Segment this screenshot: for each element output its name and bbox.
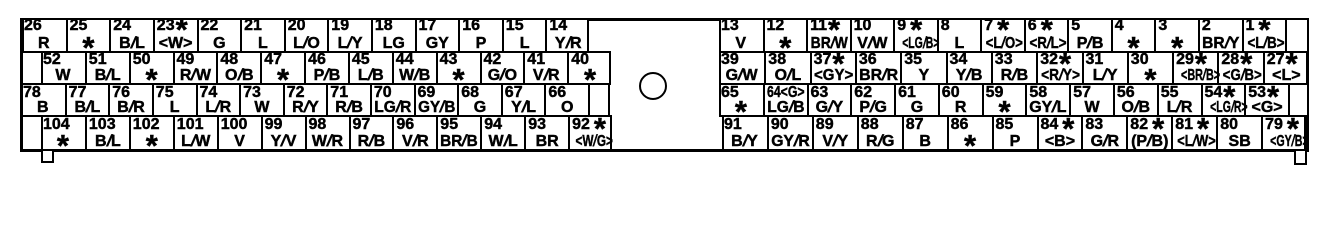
left bottom tab — [41, 149, 54, 163]
pin 98 (W/R) — [305, 116, 349, 150]
pin 71 (R/B) — [326, 84, 370, 116]
pin 79 (<GY/B>) — [1261, 116, 1306, 150]
pin 33 (R/B) — [991, 52, 1036, 84]
pin 60 (R) — [938, 84, 982, 116]
pin 4 (*) — [1111, 19, 1155, 52]
pin 29 (<BR/B>) — [1172, 52, 1217, 84]
pin 61 (G) — [894, 84, 938, 116]
pin 47 (*) — [260, 52, 304, 84]
pin 104 (*) — [41, 116, 85, 150]
pin 62 (P/G) — [850, 84, 894, 116]
pin 20 (L/O) — [284, 19, 328, 52]
pin 93 (BR) — [524, 116, 568, 150]
empty stub cell — [1288, 84, 1309, 116]
empty stub cell — [1285, 19, 1309, 52]
pin 59 (*) — [982, 84, 1026, 116]
pin 73 (W) — [239, 84, 283, 116]
pin 65 (*) — [719, 84, 763, 116]
pin 23 (<W>) — [153, 19, 197, 52]
pin row 26-14 group box — [22, 18, 589, 53]
pin 67 (Y/L) — [501, 84, 545, 116]
pin 53 (<G>) — [1244, 84, 1288, 116]
pin 72 (R/Y) — [283, 84, 327, 116]
pin 103 (B/L) — [85, 116, 129, 150]
pin 70 (LG/R) — [370, 84, 414, 116]
pin 34 (Y/B) — [946, 52, 991, 84]
pin 101 (L/W) — [173, 116, 217, 150]
pin 91 (B/Y) — [722, 116, 767, 150]
pin 68 (G) — [457, 84, 501, 116]
pin 54 (<LG/R>) — [1201, 84, 1245, 116]
pin 39 (G/W) — [719, 52, 764, 84]
pin row 52-40 group box — [41, 51, 611, 85]
right bottom tab — [1294, 149, 1307, 165]
pin 83 (G/R) — [1081, 116, 1126, 150]
pin 86 (*) — [947, 116, 992, 150]
pin 5 (P/B) — [1067, 19, 1111, 52]
pin 15 (L) — [502, 19, 546, 52]
pin 95 (BR/B) — [436, 116, 480, 150]
pin 81 (<L/W>) — [1171, 116, 1216, 150]
pin 82 ((P/B)) — [1126, 116, 1171, 150]
pin row 39-27* group box — [719, 51, 1308, 85]
pin 30 (*) — [1127, 52, 1172, 84]
pin 9 (<LG/B>) — [893, 19, 937, 52]
pin 66 (O) — [544, 84, 588, 116]
pin 13 (V) — [719, 19, 763, 52]
pin 40 (*) — [567, 52, 611, 84]
pin 92 (<W/G>) — [568, 116, 612, 150]
pin 69 (GY/B) — [414, 84, 458, 116]
pin 77 (B/L) — [65, 84, 109, 116]
pin 32 (<R/Y>) — [1036, 52, 1081, 84]
pin 48 (O/B) — [216, 52, 260, 84]
pin 55 (L/R) — [1157, 84, 1201, 116]
pin 99 (Y/V) — [261, 116, 305, 150]
connector outer outline — [20, 18, 1309, 152]
pin 19 (L/Y) — [327, 19, 371, 52]
pin 38 (O/L) — [764, 52, 809, 84]
pin 18 (LG) — [371, 19, 415, 52]
pin 64 (LG/B) — [763, 84, 807, 116]
pin 100 (V) — [217, 116, 261, 150]
pin row 78-66 group box — [21, 83, 610, 117]
pin 96 (V/R) — [392, 116, 436, 150]
center mounting hole — [639, 72, 667, 100]
pin 50 (*) — [129, 52, 173, 84]
pin row 65-53* group box — [719, 83, 1309, 117]
pin 90 (GY/R) — [767, 116, 812, 150]
pin 45 (L/B) — [348, 52, 392, 84]
pin 42 (G/O) — [480, 52, 524, 84]
pin 14 (Y/R) — [545, 19, 589, 52]
pin 35 (Y) — [900, 52, 945, 84]
pin 43 (*) — [436, 52, 480, 84]
pin 11 (BR/W) — [806, 19, 850, 52]
pin 8 (L) — [937, 19, 981, 52]
pin 3 (*) — [1154, 19, 1198, 52]
pin 24 (B/L) — [109, 19, 153, 52]
pin 57 (W) — [1069, 84, 1113, 116]
pin 52 (W) — [41, 52, 85, 84]
pin row 104-92* group box — [41, 115, 612, 151]
pin 88 (R/G) — [857, 116, 902, 150]
pin 16 (P) — [458, 19, 502, 52]
pin 87 (B) — [902, 116, 947, 150]
pin 22 (G) — [197, 19, 241, 52]
pin 46 (P/B) — [304, 52, 348, 84]
pin 25 (*) — [66, 19, 110, 52]
pin 10 (V/W) — [850, 19, 894, 52]
pin 63 (G/Y) — [807, 84, 851, 116]
pin 74 (L/R) — [196, 84, 240, 116]
pin 31 (L/Y) — [1082, 52, 1127, 84]
pin 56 (O/B) — [1113, 84, 1157, 116]
pin 2 (BR/Y) — [1198, 19, 1242, 52]
pin 21 (L) — [240, 19, 284, 52]
pin 6 (<R/L>) — [1024, 19, 1068, 52]
pin 26 (R) — [22, 19, 66, 52]
pin 12 (*) — [763, 19, 807, 52]
pin 51 (B/L) — [85, 52, 129, 84]
pin 28 (<G/B>) — [1217, 52, 1262, 84]
pin 49 (R/W) — [173, 52, 217, 84]
pin 78 (B) — [21, 84, 65, 116]
pin 37 (<GY>) — [810, 52, 855, 84]
pin 75 (L) — [152, 84, 196, 116]
empty stub cell — [588, 84, 610, 116]
pin 1 (<L/B>) — [1242, 19, 1286, 52]
pin 97 (R/B) — [349, 116, 393, 150]
pin row 13-1* group box — [719, 18, 1309, 53]
pin 76 (B/R) — [108, 84, 152, 116]
pin 44 (W/B) — [392, 52, 436, 84]
pin 80 (SB) — [1216, 116, 1261, 150]
pin 7 (<L/O>) — [980, 19, 1024, 52]
pin row 91-79* group box — [722, 115, 1306, 151]
pin 36 (BR/R) — [855, 52, 900, 84]
pin 84 (<B>) — [1037, 116, 1082, 150]
pin 85 (P) — [992, 116, 1037, 150]
pin 94 (W/L) — [480, 116, 524, 150]
pin 89 (V/Y) — [812, 116, 857, 150]
pin 102 (*) — [129, 116, 173, 150]
pin 27 (<L>) — [1263, 52, 1308, 84]
pin 17 (GY) — [415, 19, 459, 52]
pin 41 (V/R) — [523, 52, 567, 84]
pin 58 (GY/L) — [1025, 84, 1069, 116]
